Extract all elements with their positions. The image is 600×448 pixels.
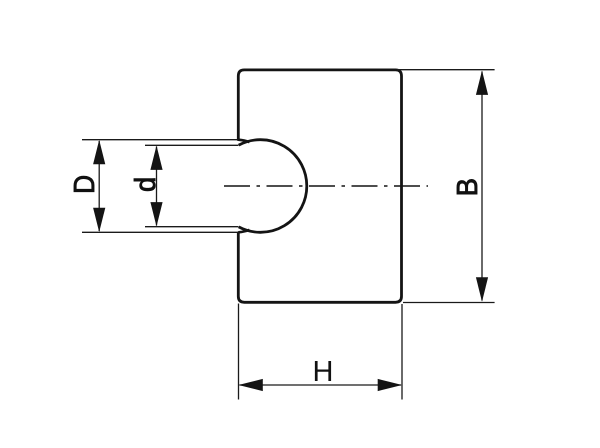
dimension line H xyxy=(240,384,402,386)
dimension line d xyxy=(156,147,158,226)
arrowhead D up xyxy=(93,140,105,164)
extension line D bottom xyxy=(82,231,239,233)
body outline (rounded block, side view) xyxy=(238,70,401,302)
socket mouth lip bottom xyxy=(238,230,249,233)
arrowhead B down xyxy=(476,277,488,301)
svg-text:D: D xyxy=(69,175,101,194)
socket mouth lip top xyxy=(238,140,249,143)
svg-text:B: B xyxy=(452,178,484,196)
arrowhead B up xyxy=(476,71,488,95)
extension line B top xyxy=(397,69,495,71)
dimension line D xyxy=(98,141,100,231)
extension line H left xyxy=(238,304,240,400)
dimension line B xyxy=(481,72,483,301)
centerline (dash-dot) xyxy=(224,185,428,187)
arrowhead d down xyxy=(150,202,162,226)
extension line H right xyxy=(401,304,403,400)
svg-text:d: d xyxy=(130,177,162,192)
extension line B bottom xyxy=(403,302,495,304)
extension line D top xyxy=(82,139,239,141)
ball socket cavity arc xyxy=(239,140,307,233)
arrowhead D down xyxy=(93,208,105,232)
extension line d bottom xyxy=(145,226,239,228)
arrowhead d up xyxy=(150,146,162,170)
extension line d top xyxy=(145,144,239,146)
arrowhead H right xyxy=(378,379,402,391)
svg-text:H: H xyxy=(313,356,334,388)
arrowhead H left xyxy=(238,379,262,391)
